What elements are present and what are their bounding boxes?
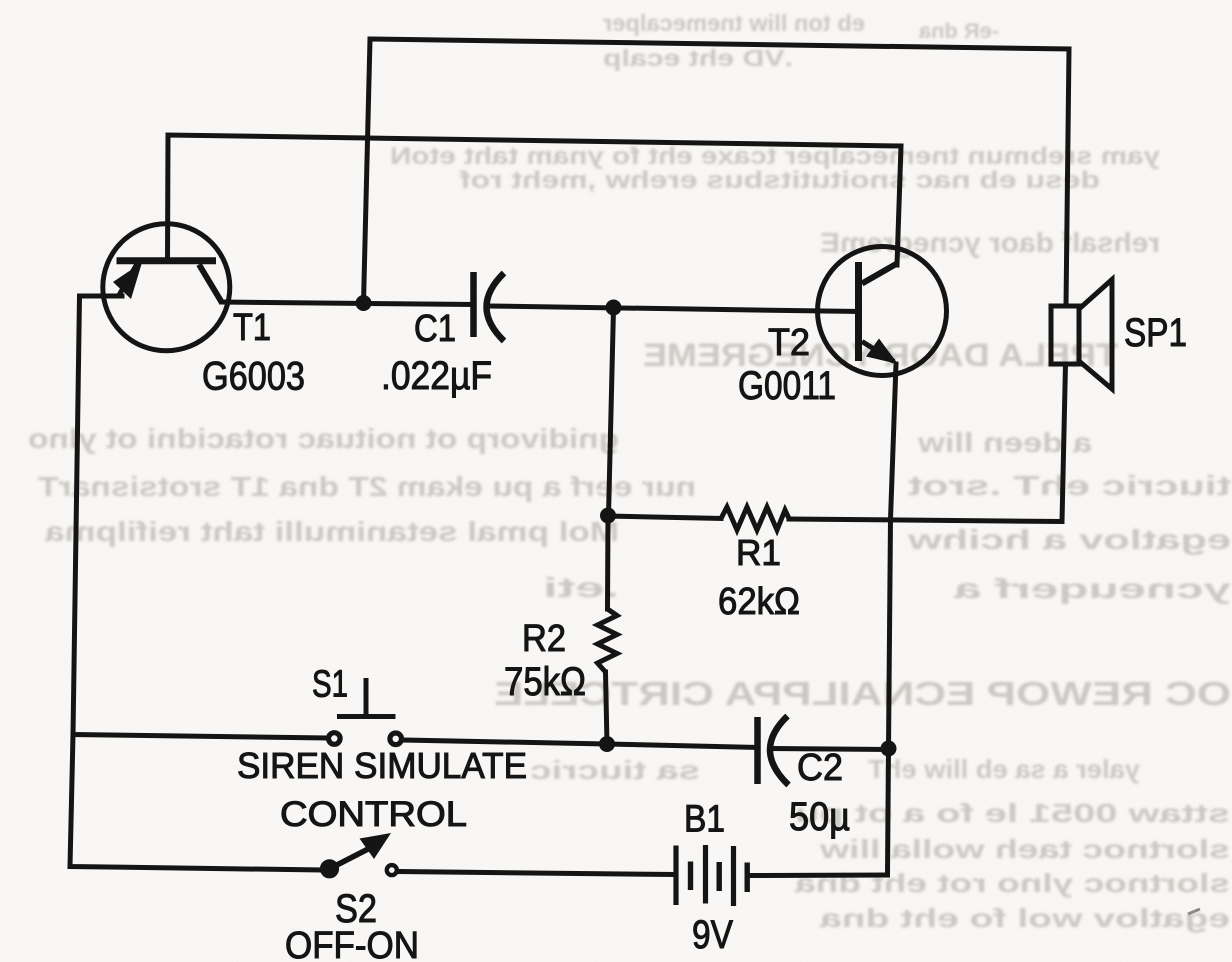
wire: node C to R1: [609, 516, 722, 519]
wire: S2 left lead and left rail up to T1 emitter: [70, 296, 322, 870]
wire: S1 right terminal to node D to C2: [404, 740, 757, 748]
transistor T1 (G6003): [103, 224, 230, 351]
node B junction dot: [606, 300, 622, 316]
wire: R2 top lead: [605, 516, 611, 610]
wire: speaker top lead: [1066, 49, 1069, 306]
resistor R1 62k: [721, 507, 789, 530]
node D junction dot: [599, 736, 615, 752]
wire: battery left lead to S2: [400, 872, 674, 875]
wire: node B down to node C: [609, 308, 614, 516]
node E junction dot: [881, 741, 897, 757]
wire: C1 right plate to node B and on to T2 base: [489, 306, 859, 312]
node C junction dot: [600, 508, 616, 524]
wire: C2 to node E: [773, 749, 889, 750]
battery B1 9V: [676, 845, 747, 906]
wire: T2 emitter lead down through node E to battery corner: [888, 364, 897, 875]
capacitor C2 50u: [758, 716, 789, 785]
switch S1 pushbutton: [329, 678, 402, 745]
wire: top rail from junction over to speaker: [370, 39, 1069, 49]
capacitor C1 .022uF: [474, 272, 505, 341]
resistor R2 75k: [598, 609, 618, 672]
switch S2 lever: [321, 833, 397, 877]
wire: T1 collector to C1 left plate: [222, 302, 474, 305]
speaker SP1: [1051, 280, 1112, 390]
small scan mark bottom right: [1188, 909, 1200, 914]
node A junction dot: [356, 295, 372, 311]
wire: left rail S1 row: [73, 735, 326, 739]
transistor T2 (G0011): [818, 247, 947, 376]
wire: T1 base up and across to T2 collector: [168, 135, 902, 265]
wire: vertical drop from top rail to node A: [364, 39, 371, 303]
wire: R1 to speaker bottom lead corner: [789, 364, 1066, 522]
wire: R2 bottom lead to node D: [606, 672, 608, 744]
wire: battery right lead: [750, 873, 888, 879]
